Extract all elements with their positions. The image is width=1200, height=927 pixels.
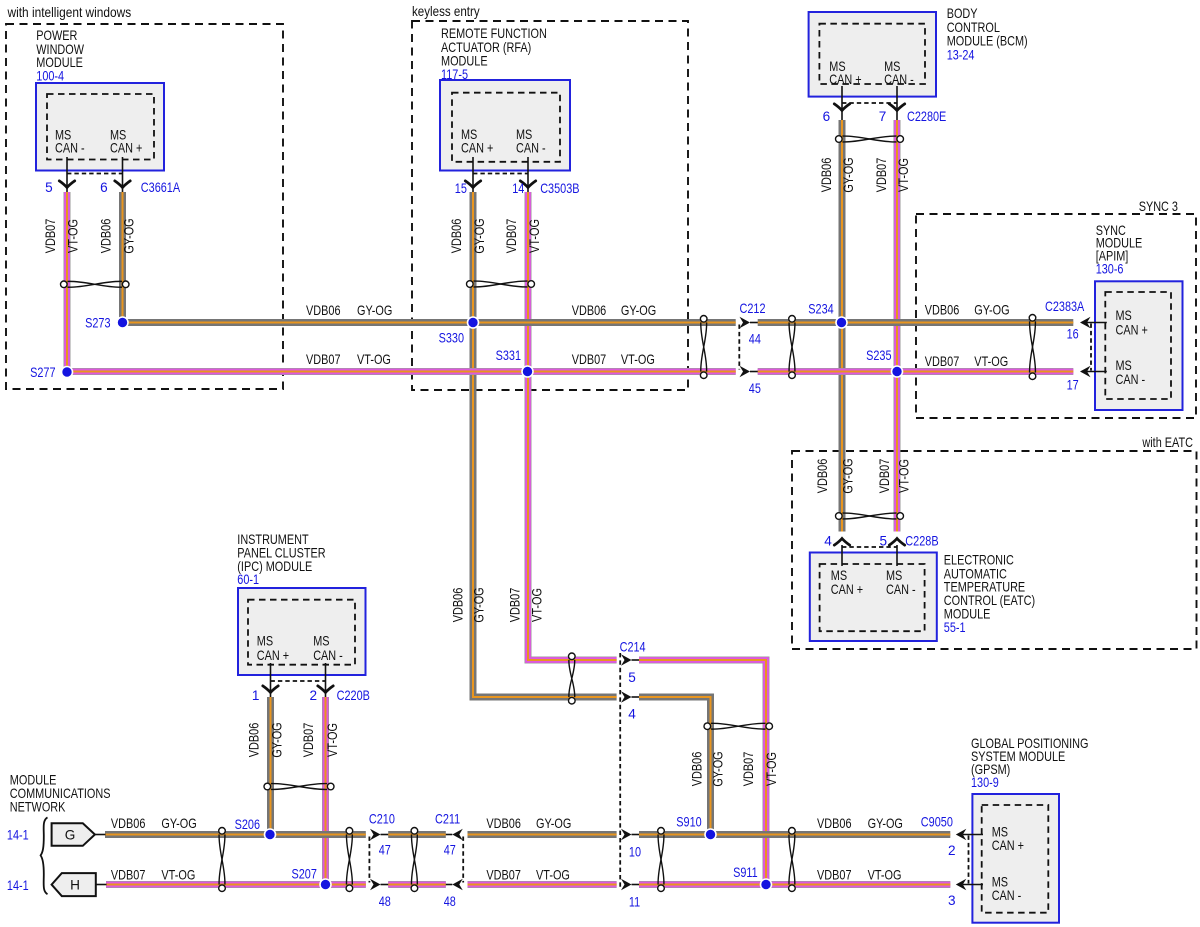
svg-text:VDB07: VDB07	[874, 158, 889, 193]
svg-text:130-9: 130-9	[971, 775, 999, 790]
in-line connector C212 pins 44/45	[739, 301, 765, 396]
wire VDB06 GY-OG lower bus (C214 pin 10 to GPSM pin 2)	[639, 831, 950, 838]
svg-text:VDB07: VDB07	[508, 588, 523, 623]
svg-text:6: 6	[100, 180, 108, 195]
twisted-pair symbol	[264, 783, 334, 790]
splice S207	[292, 866, 332, 890]
twisted-pair symbol	[411, 828, 418, 892]
svg-text:GY-OG: GY-OG	[472, 218, 487, 253]
twisted-pair symbol	[346, 828, 353, 892]
brace	[41, 817, 48, 894]
twisted-pair symbol	[789, 828, 796, 892]
svg-text:CAN +: CAN +	[110, 141, 142, 156]
svg-text:CAN +: CAN +	[992, 838, 1024, 853]
svg-text:CAN -: CAN -	[992, 888, 1022, 903]
svg-text:CAN -: CAN -	[516, 141, 546, 156]
svg-text:S330: S330	[439, 331, 465, 346]
svg-text:VDB06: VDB06	[306, 303, 341, 318]
wire VDB06 GY-OG from BCM pin 6 through S234 to EATC pin 4	[839, 120, 846, 532]
svg-text:14-1: 14-1	[7, 878, 29, 893]
dashed option box: keyless entry	[412, 21, 688, 390]
svg-text:CONTROL: CONTROL	[947, 20, 1001, 35]
svg-text:C9050: C9050	[921, 814, 953, 829]
svg-text:GY-OG: GY-OG	[711, 751, 726, 786]
svg-text:55-1: 55-1	[944, 620, 966, 635]
svg-text:MODULE (BCM): MODULE (BCM)	[947, 34, 1028, 49]
svg-text:GY-OG: GY-OG	[840, 458, 855, 493]
svg-text:with intelligent windows: with intelligent windows	[7, 5, 132, 20]
svg-text:14-1: 14-1	[7, 828, 29, 843]
svg-text:3: 3	[948, 893, 956, 908]
svg-text:H: H	[70, 878, 80, 893]
svg-text:GY-OG: GY-OG	[841, 157, 856, 192]
svg-text:VDB06: VDB06	[925, 303, 960, 318]
twisted-pair symbol	[658, 828, 665, 892]
svg-text:1: 1	[252, 688, 260, 703]
svg-text:VDB07: VDB07	[877, 459, 892, 494]
svg-text:7: 7	[879, 109, 887, 124]
GPSM pin stubs, arrows, connector C9050 pins 2/3	[921, 814, 983, 908]
svg-text:VDB07: VDB07	[925, 354, 960, 369]
svg-text:CAN -: CAN -	[884, 72, 914, 87]
module: BODY CONTROL MODULE (BCM)	[809, 12, 936, 97]
in-line connector C214 pins 5/4/10/11	[620, 639, 646, 909]
svg-text:MS: MS	[1116, 358, 1132, 373]
svg-text:ACTUATOR (RFA): ACTUATOR (RFA)	[441, 40, 531, 55]
twisted-pair symbol	[569, 653, 576, 704]
svg-text:47: 47	[444, 843, 456, 858]
svg-text:VT-OG: VT-OG	[974, 354, 1008, 369]
PWM pin stubs, arrows, connector C3661A	[45, 157, 181, 195]
svg-text:VDB07: VDB07	[741, 752, 756, 787]
wire VDB07 VT-OG upper bus (S277 to C212)	[67, 368, 736, 375]
svg-text:48: 48	[444, 894, 456, 909]
svg-text:CAN -: CAN -	[886, 582, 916, 597]
twisted-pair symbol	[700, 316, 707, 379]
svg-text:VT-OG: VT-OG	[325, 723, 340, 757]
svg-text:VT-OG: VT-OG	[357, 352, 391, 367]
svg-text:MS: MS	[257, 634, 273, 649]
svg-text:VT-OG: VT-OG	[66, 219, 81, 253]
svg-text:13-24: 13-24	[947, 48, 975, 63]
svg-text:S331: S331	[496, 348, 521, 363]
svg-text:VDB06: VDB06	[449, 219, 464, 254]
svg-text:VT-OG: VT-OG	[536, 868, 570, 883]
svg-text:16: 16	[1067, 327, 1079, 342]
dashed option box: with intelligent windows	[6, 24, 283, 389]
wire VDB06 GY-OG upper bus (S273 to C212)	[123, 319, 736, 326]
splice S331	[496, 348, 533, 377]
in-line connector C211 pins 47/48	[435, 812, 463, 909]
svg-text:VDB07: VDB07	[572, 352, 607, 367]
wire VDB07 VT-OG lower bus (C214 pin 11 to GPSM pin 3)	[639, 881, 950, 888]
in-line connector C210 pins 47/48	[369, 812, 395, 909]
wire VDB06 GY-OG upper bus (C212 to APIM pin 16)	[758, 319, 1074, 326]
svg-text:C211: C211	[435, 812, 460, 827]
module: POWER WINDOW MODULE	[36, 83, 164, 171]
wire VDB06 GY-OG lower bus (G to C210)	[105, 831, 366, 838]
twisted-pair symbol	[219, 828, 226, 892]
svg-text:keyless entry: keyless entry	[412, 4, 480, 19]
svg-text:VDB07: VDB07	[306, 352, 341, 367]
RFA pin stubs, arrows, connector C3503B	[455, 157, 580, 196]
twisted-pair symbol	[467, 281, 535, 288]
svg-text:BODY: BODY	[947, 6, 978, 21]
svg-text:2: 2	[310, 688, 318, 703]
module: SYNC MODULE [APIM]	[1095, 281, 1183, 410]
svg-text:VT-OG: VT-OG	[530, 588, 545, 622]
svg-text:VDB06: VDB06	[572, 303, 607, 318]
svg-text:VT-OG: VT-OG	[621, 352, 655, 367]
svg-text:S206: S206	[235, 817, 260, 832]
svg-text:VDB06: VDB06	[98, 219, 113, 254]
module: INSTRUMENT PANEL CLUSTER (IPC) MODULE	[238, 588, 366, 675]
twisted-pair symbol	[836, 513, 904, 520]
svg-text:GY-OG: GY-OG	[161, 816, 196, 831]
splice S330	[439, 317, 479, 346]
wire VDB06 GY-OG lower bus (C210 to C211)	[388, 831, 446, 838]
splice S234	[808, 302, 847, 328]
svg-text:GY-OG: GY-OG	[974, 303, 1009, 318]
twisted-pair symbol	[789, 316, 796, 379]
svg-text:GY-OG: GY-OG	[121, 218, 136, 253]
svg-text:VDB07: VDB07	[301, 723, 316, 758]
APIM pin stubs, arrows, connector C2383A pins 16/17	[1045, 299, 1107, 393]
splice S910	[676, 814, 716, 840]
splice S273	[85, 316, 128, 331]
svg-text:VT-OG: VT-OG	[527, 219, 542, 253]
svg-text:5: 5	[628, 670, 636, 685]
svg-text:VT-OG: VT-OG	[896, 459, 911, 493]
IPC pin stubs, arrows, connector C220B pins 1/2	[252, 663, 370, 703]
svg-text:S234: S234	[808, 302, 834, 317]
svg-text:S277: S277	[30, 365, 55, 380]
svg-text:POWER: POWER	[36, 28, 77, 43]
module: GLOBAL POSITIONING SYSTEM MODULE (GPSM)	[972, 794, 1059, 923]
twisted-pair symbol	[704, 723, 773, 730]
svg-text:CAN +: CAN +	[257, 648, 289, 663]
svg-text:MS: MS	[886, 568, 902, 583]
connector H (off-page)	[52, 873, 107, 896]
svg-text:47: 47	[379, 843, 391, 858]
svg-text:C3661A: C3661A	[141, 180, 181, 195]
module: REMOTE FUNCTION ACTUATOR (RFA) MODULE	[440, 80, 570, 171]
module: EATC MODULE	[810, 553, 937, 642]
twisted-pair symbol	[1029, 315, 1036, 380]
svg-text:S910: S910	[676, 814, 702, 829]
svg-text:S207: S207	[292, 866, 317, 881]
dashed option box: with EATC	[792, 451, 1197, 649]
splice S911	[733, 865, 771, 890]
svg-text:5: 5	[880, 534, 888, 549]
svg-text:5: 5	[45, 180, 53, 195]
wire VDB07 VT-OG from BCM pin 7 through S235 to EATC pin 5	[894, 120, 901, 532]
svg-text:GY-OG: GY-OG	[868, 816, 903, 831]
wire VDB07 VT-OG lower bus (H to C210)	[106, 881, 366, 888]
svg-text:14: 14	[512, 181, 524, 196]
svg-text:VDB06: VDB06	[690, 752, 705, 787]
svg-text:10: 10	[629, 845, 641, 860]
svg-text:CAN -: CAN -	[1116, 372, 1146, 387]
twisted-pair symbol	[836, 136, 904, 143]
svg-text:48: 48	[379, 894, 391, 909]
svg-text:G: G	[65, 828, 76, 843]
svg-text:ELECTRONIC: ELECTRONIC	[944, 552, 1014, 567]
EATC pin stubs, arrows, connector C228B pins 4/5	[824, 534, 938, 567]
svg-text:C214: C214	[620, 639, 646, 654]
svg-text:4: 4	[628, 707, 636, 722]
svg-text:VT-OG: VT-OG	[896, 158, 911, 192]
svg-text:S911: S911	[733, 865, 758, 880]
wire VDB06 GY-OG lower bus (C211 to C214 pin 10)	[468, 831, 617, 838]
wire VDB07 VT-OG upper bus (C212 to APIM pin 17)	[758, 368, 1074, 375]
svg-text:VDB07: VDB07	[43, 219, 58, 254]
wire VDB07 VT-OG lower bus (C211 to C214 pin 11)	[468, 881, 617, 888]
svg-text:15: 15	[455, 181, 467, 196]
svg-text:C220B: C220B	[337, 688, 370, 703]
splice S235	[866, 348, 902, 377]
wire VDB06 GY-OG from RFA pin 15 through S330 to C214 pin 4	[473, 192, 617, 697]
wire VDB07 VT-OG lower bus (C210 to C211)	[388, 881, 446, 888]
svg-text:VDB06: VDB06	[111, 816, 145, 831]
svg-text:117-5: 117-5	[441, 67, 468, 82]
svg-text:C3503B: C3503B	[540, 181, 579, 196]
svg-text:130-6: 130-6	[1096, 262, 1124, 277]
svg-text:11: 11	[629, 895, 640, 910]
svg-text:GY-OG: GY-OG	[536, 816, 571, 831]
svg-text:VDB06: VDB06	[451, 588, 466, 623]
svg-text:with EATC: with EATC	[1142, 435, 1194, 450]
svg-text:GY-OG: GY-OG	[621, 303, 656, 318]
wire VDB06 GY-OG from IPC pin 1 to S206	[267, 697, 274, 835]
dashed option box: SYNC 3	[916, 214, 1196, 418]
svg-text:VDB07: VDB07	[111, 868, 145, 883]
twisted-pair symbol	[61, 281, 130, 288]
wire VDB06 GY-OG from C214 pin 4 to S910	[639, 697, 711, 835]
svg-text:VT-OG: VT-OG	[764, 752, 779, 786]
svg-text:MS: MS	[313, 634, 329, 649]
BCM pin stubs, arrows, connector C2280E	[823, 86, 947, 124]
svg-text:CAN +: CAN +	[461, 141, 493, 156]
svg-text:6: 6	[823, 109, 831, 124]
svg-text:S273: S273	[85, 316, 110, 331]
svg-text:C212: C212	[740, 301, 766, 316]
wire VDB07 VT-OG from IPC pin 2 to S207	[322, 697, 329, 885]
wire VDB07 VT-OG from C214 pin 5 to S911	[639, 660, 766, 885]
svg-text:4: 4	[824, 534, 832, 549]
svg-text:45: 45	[749, 381, 761, 396]
svg-text:CAN +: CAN +	[829, 72, 861, 87]
wire VDB07 VT-OG from PWM pin 5 to S277	[64, 192, 71, 372]
svg-text:VDB06: VDB06	[247, 723, 262, 758]
svg-text:REMOTE FUNCTION: REMOTE FUNCTION	[441, 26, 547, 41]
svg-text:CAN +: CAN +	[1116, 322, 1148, 337]
splice S206	[235, 817, 276, 840]
svg-text:GY-OG: GY-OG	[357, 303, 392, 318]
svg-text:C210: C210	[369, 812, 395, 827]
svg-text:17: 17	[1067, 378, 1079, 393]
svg-text:CAN -: CAN -	[313, 648, 343, 663]
svg-text:NETWORK: NETWORK	[10, 799, 66, 814]
svg-text:VT-OG: VT-OG	[161, 868, 195, 883]
svg-text:S235: S235	[866, 348, 891, 363]
svg-text:VT-OG: VT-OG	[868, 868, 902, 883]
svg-text:VDB07: VDB07	[504, 219, 519, 254]
svg-text:VDB07: VDB07	[817, 868, 852, 883]
svg-text:SYNC 3: SYNC 3	[1139, 199, 1178, 214]
splice S277	[30, 365, 72, 380]
svg-text:100-4: 100-4	[36, 68, 64, 83]
svg-text:VDB06: VDB06	[817, 816, 852, 831]
svg-text:60-1: 60-1	[237, 572, 259, 587]
svg-text:2: 2	[948, 843, 956, 858]
svg-text:C2383A: C2383A	[1045, 299, 1085, 314]
svg-text:VDB06: VDB06	[486, 816, 521, 831]
wire VDB07 VT-OG from RFA pin 14 through S331 to C214 pin 5	[528, 192, 617, 660]
wire VDB06 GY-OG from PWM pin 6 to S273	[119, 192, 126, 323]
svg-text:VDB07: VDB07	[486, 868, 521, 883]
connector G (off-page)	[52, 823, 106, 846]
svg-text:C2280E: C2280E	[907, 109, 946, 124]
svg-text:MS: MS	[831, 568, 847, 583]
svg-text:CAN +: CAN +	[831, 582, 863, 597]
svg-text:VDB06: VDB06	[815, 459, 830, 494]
svg-text:CAN -: CAN -	[55, 141, 85, 156]
svg-text:MS: MS	[1116, 308, 1132, 323]
svg-text:44: 44	[749, 331, 761, 346]
svg-text:C228B: C228B	[905, 534, 938, 549]
svg-text:GY-OG: GY-OG	[269, 722, 284, 757]
svg-text:VDB06: VDB06	[819, 158, 834, 193]
svg-text:GY-OG: GY-OG	[472, 587, 487, 622]
